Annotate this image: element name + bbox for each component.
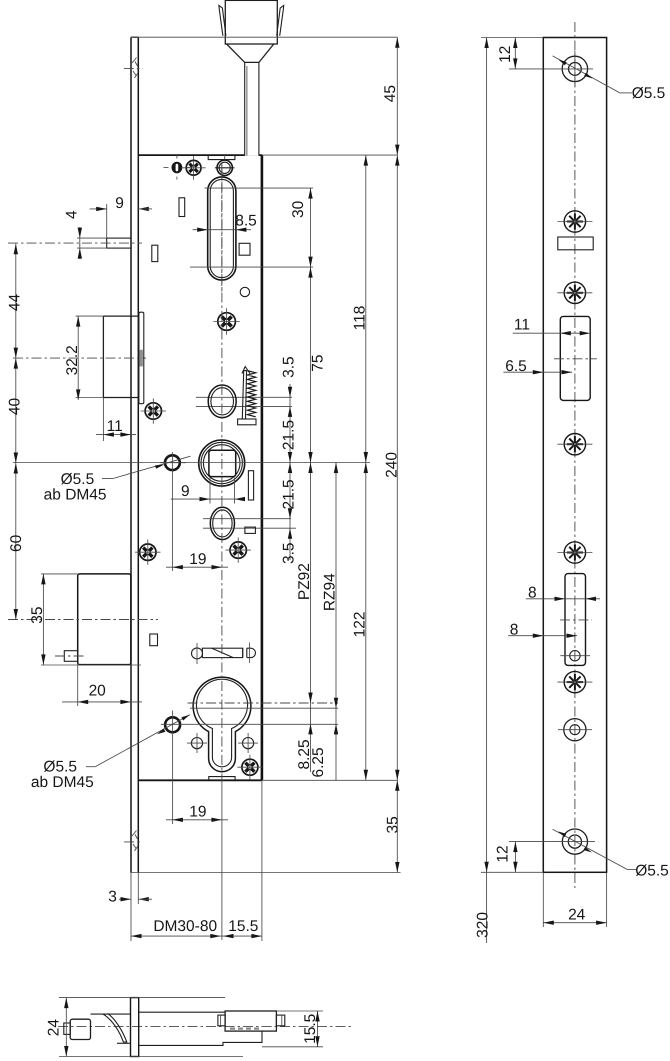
bv center block bbox=[225, 1011, 276, 1031]
narrow slot right of follower bbox=[248, 471, 253, 500]
svg-text:11: 11 bbox=[514, 317, 530, 334]
svg-text:30: 30 bbox=[290, 200, 307, 218]
phillips screw top bbox=[186, 160, 201, 175]
dim line x365 (118/122) bbox=[365, 155, 367, 780]
svg-text:ab DM45: ab DM45 bbox=[31, 774, 94, 791]
svg-text:15.5: 15.5 bbox=[228, 918, 258, 935]
svg-text:6.25: 6.25 bbox=[310, 747, 327, 777]
torx screw 4 bbox=[564, 542, 585, 563]
svg-text:122: 122 bbox=[351, 611, 368, 637]
latch slot centerline bbox=[221, 165, 223, 292]
torx screw 1 bbox=[564, 211, 585, 232]
plain hole bbox=[564, 719, 586, 741]
svg-text:RZ94: RZ94 bbox=[321, 573, 338, 611]
dim 19 follower bbox=[166, 566, 228, 568]
latch slot inner bbox=[210, 179, 233, 277]
cylinder hole inner bbox=[196, 679, 247, 767]
main vertical centerline bbox=[221, 163, 223, 783]
bv body top line right bbox=[139, 1011, 225, 1013]
spring coil bbox=[247, 371, 255, 417]
phillips screw upper middle bbox=[218, 313, 236, 331]
fixing hole left bbox=[191, 738, 202, 749]
svg-text:3.5: 3.5 bbox=[280, 356, 297, 378]
follower circle 2 bbox=[201, 442, 242, 483]
bv bottom tick bbox=[117, 1042, 131, 1044]
svg-text:ab DM45: ab DM45 bbox=[44, 486, 107, 503]
latch slot outer bbox=[208, 177, 236, 280]
small rect slot bbox=[558, 237, 593, 250]
follower square 9mm bbox=[209, 450, 236, 476]
spring tip bbox=[242, 367, 250, 374]
dim 19 bottom bbox=[166, 819, 228, 821]
dim 9 follower square bbox=[209, 478, 211, 504]
lower slot mid tick bbox=[560, 619, 592, 621]
box2 stub bbox=[64, 651, 77, 662]
oval-head screw (dark) bbox=[172, 162, 183, 174]
svg-text:9: 9 bbox=[181, 483, 190, 500]
aux latch centerline bbox=[8, 242, 142, 244]
leader to Oe5.5 mid bbox=[102, 478, 113, 480]
plate hook opening bbox=[139, 312, 144, 404]
dim 11 hook bbox=[102, 398, 104, 442]
dim line x397 (45/240/35) bbox=[396, 37, 398, 872]
chain dim line x290 bbox=[289, 384, 291, 560]
svg-text:32.2: 32.2 bbox=[64, 345, 81, 375]
faceplate centerline bbox=[574, 22, 576, 888]
ext line y518 bbox=[203, 518, 291, 520]
faceplate strip (edge view) bbox=[130, 37, 132, 872]
aux latch piece bbox=[107, 238, 131, 248]
hook box centerline bbox=[13, 357, 146, 359]
bv right tab bbox=[276, 1015, 284, 1026]
latch bolt head bbox=[225, 0, 277, 44]
bolt box lower bbox=[78, 574, 131, 665]
small slot A bbox=[179, 198, 185, 217]
leader Oe5.5 bottom right bbox=[553, 829, 628, 869]
hook bolt box bbox=[103, 315, 138, 317]
stub centerline bbox=[55, 655, 85, 657]
dim 11 plate bbox=[513, 332, 589, 334]
bv body bottom profile bbox=[139, 1031, 262, 1045]
follower horizontal centerline bbox=[13, 462, 370, 464]
ext line y528 bbox=[203, 527, 296, 529]
svg-text:19: 19 bbox=[189, 803, 206, 820]
hook bolt tip (shaded) bbox=[139, 350, 143, 367]
svg-text:12: 12 bbox=[495, 845, 512, 862]
svg-text:35: 35 bbox=[385, 816, 402, 833]
Oe5.5 hole mid-left bbox=[165, 455, 180, 470]
dim 12 bottom bbox=[514, 842, 516, 873]
strip break mark top bbox=[132, 58, 137, 64]
svg-text:3: 3 bbox=[108, 889, 117, 906]
svg-text:75: 75 bbox=[310, 354, 327, 371]
svg-text:118: 118 bbox=[351, 306, 368, 331]
torx screw 3 bbox=[564, 434, 585, 455]
lower oval inner bbox=[213, 510, 232, 537]
plate bottom left extension bbox=[481, 871, 543, 873]
follower circle 3 bbox=[203, 445, 240, 482]
ext line y406 bbox=[196, 405, 292, 407]
latch window slot bbox=[560, 316, 590, 400]
svg-text:Ø5.5: Ø5.5 bbox=[635, 862, 669, 879]
lock case outline bbox=[138, 154, 262, 156]
lower oval outer bbox=[210, 507, 234, 539]
dim line x310 (30/75/PZ92/8.25) bbox=[310, 188, 312, 772]
locking lever pin bbox=[192, 648, 203, 659]
case bottom extension right bbox=[262, 779, 397, 781]
bottom view centerline bbox=[58, 1026, 352, 1028]
svg-text:8: 8 bbox=[510, 622, 519, 639]
bv body top line bbox=[91, 1013, 131, 1015]
svg-text:45: 45 bbox=[382, 85, 399, 102]
slot top extension line bbox=[205, 187, 314, 189]
svg-text:21.5: 21.5 bbox=[280, 479, 297, 509]
Oe5.5 hole bottom-left bbox=[165, 717, 180, 732]
cam oval outer bbox=[208, 385, 236, 418]
phillips screw left mid bbox=[145, 403, 161, 419]
bv latch tip bbox=[64, 1023, 70, 1034]
RZ chord line bbox=[190, 707, 338, 709]
phillips screw lower-mid bbox=[230, 542, 246, 558]
svg-text:8.5: 8.5 bbox=[235, 213, 257, 230]
bv left tab bbox=[218, 1015, 225, 1026]
svg-text:60: 60 bbox=[8, 534, 25, 552]
small horizontal slot bbox=[245, 527, 256, 533]
dim 6.5 plate bbox=[503, 371, 572, 373]
small circle below slot bbox=[240, 287, 249, 296]
svg-text:21.5: 21.5 bbox=[280, 420, 297, 450]
svg-text:9: 9 bbox=[115, 195, 124, 212]
svg-text:PZ92: PZ92 bbox=[296, 563, 313, 600]
phillips screw lower-left bbox=[140, 544, 156, 560]
case top extension right bbox=[262, 154, 397, 156]
dim line x336 (RZ94/6.25) bbox=[335, 463, 337, 781]
svg-text:11: 11 bbox=[107, 418, 123, 435]
dim DM30-80 and 15.5 bbox=[131, 935, 262, 937]
faceplate front outline bbox=[543, 38, 606, 873]
box2 centerline bbox=[8, 619, 158, 621]
dim 12 top bbox=[481, 37, 543, 39]
dim 24 bottom view bbox=[59, 997, 225, 999]
strip bottom extension line bbox=[131, 872, 401, 874]
guide tab below case top bbox=[208, 155, 235, 160]
dim 320 bbox=[486, 38, 488, 944]
torx screw 5 bbox=[564, 671, 585, 692]
dim 20 bbox=[77, 665, 79, 706]
cam oval inner bbox=[211, 388, 234, 415]
spring leaf bbox=[242, 371, 246, 419]
svg-text:24: 24 bbox=[46, 1019, 63, 1037]
strike line / 45-dim top extension bbox=[131, 36, 397, 38]
dim 8 offset bbox=[508, 635, 577, 637]
bv faceplate bar bbox=[131, 998, 139, 1057]
latch bolt shaft bbox=[245, 62, 259, 155]
svg-text:DM30-80: DM30-80 bbox=[153, 918, 217, 935]
svg-text:20: 20 bbox=[89, 683, 107, 700]
dim chain 44/40/60 line bbox=[15, 244, 17, 620]
cylinder hole outer bbox=[193, 677, 251, 772]
follower outer circle bbox=[199, 440, 245, 486]
latch head spring wing left bbox=[219, 5, 226, 35]
svg-text:40: 40 bbox=[6, 398, 23, 416]
lower slot bbox=[565, 574, 586, 666]
top counterbore hole bbox=[562, 56, 587, 81]
svg-text:3.5: 3.5 bbox=[280, 542, 297, 564]
bv latch bevel pennant bbox=[103, 1013, 127, 1042]
small circle in slot bbox=[570, 651, 580, 661]
spring base plate bbox=[238, 419, 256, 425]
dim 15.5 bottom view bbox=[276, 1010, 323, 1012]
dim 9 aux bbox=[106, 204, 108, 238]
cylinder centerline bbox=[188, 702, 338, 704]
svg-text:8: 8 bbox=[528, 584, 537, 601]
slot center extension line bbox=[190, 266, 313, 268]
ext verticals bottom bbox=[130, 873, 132, 942]
svg-text:12: 12 bbox=[497, 46, 514, 63]
small rect in case bbox=[150, 634, 158, 646]
svg-text:4: 4 bbox=[64, 210, 81, 219]
leader Oe5.5 top bbox=[553, 56, 620, 93]
bv block hatch bbox=[230, 1027, 262, 1029]
svg-text:24: 24 bbox=[568, 906, 586, 923]
bv latch head bbox=[70, 1019, 90, 1039]
phillips screw bottom bbox=[242, 759, 258, 775]
fixing hole right bbox=[243, 738, 254, 749]
dim 8.5 slot width bbox=[193, 229, 251, 231]
ext line y397 bbox=[196, 396, 292, 398]
dim 24 plate bbox=[542, 872, 544, 927]
svg-text:320: 320 bbox=[474, 912, 491, 938]
svg-text:35: 35 bbox=[29, 606, 46, 623]
dim 8 slot width bbox=[526, 598, 600, 600]
leader to Oe5.5 bottom bbox=[86, 766, 95, 768]
dim 32.2 bbox=[76, 315, 104, 317]
bottom tab under stem bbox=[209, 777, 235, 781]
svg-text:19: 19 bbox=[189, 551, 206, 568]
svg-text:44: 44 bbox=[6, 294, 23, 312]
svg-text:6.5: 6.5 bbox=[505, 358, 527, 375]
torx screw 2 bbox=[564, 282, 585, 303]
dim 35 left bbox=[41, 573, 78, 575]
latch head spring wing right bbox=[277, 5, 284, 35]
svg-text:240: 240 bbox=[384, 452, 401, 478]
latch window center tick bbox=[554, 358, 597, 360]
small slot B bbox=[152, 245, 158, 261]
bottom counterbore hole bbox=[562, 829, 587, 854]
svg-text:Ø5.5: Ø5.5 bbox=[632, 85, 666, 102]
small square hole bbox=[239, 243, 250, 255]
strip break mark bottom bbox=[132, 831, 137, 837]
follower-stop screw bbox=[217, 160, 232, 175]
dim 4 bbox=[79, 227, 81, 259]
dim 3 bbox=[119, 898, 131, 900]
svg-text:15.5: 15.5 bbox=[302, 1014, 319, 1044]
